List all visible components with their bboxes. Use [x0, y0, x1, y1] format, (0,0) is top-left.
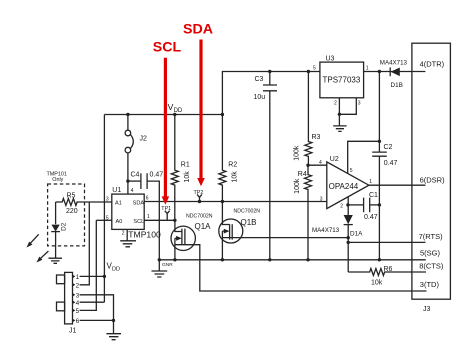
- svg-text:TP2: TP2: [194, 190, 204, 196]
- wire RTS: [348, 241, 425, 243]
- svg-text:7(RTS): 7(RTS): [419, 232, 444, 241]
- label VDD main: [168, 102, 183, 114]
- diode D1A: [312, 215, 363, 272]
- capacitor C2: [372, 144, 397, 167]
- svg-text:SCL: SCL: [133, 219, 144, 225]
- svg-text:3: 3: [358, 101, 361, 107]
- annotation SDA: [183, 22, 213, 187]
- resistor R5: [56, 192, 90, 215]
- svg-text:SCL: SCL: [153, 40, 182, 56]
- regulator U3: [313, 55, 369, 131]
- svg-text:R3: R3: [312, 134, 321, 141]
- svg-text:SDA: SDA: [183, 22, 213, 38]
- wire J1 pin6 GND: [80, 319, 114, 321]
- svg-text:10k: 10k: [184, 171, 191, 183]
- connector J3: [412, 43, 451, 313]
- svg-text:5: 5: [313, 66, 316, 72]
- op-amp U2: [308, 141, 379, 215]
- svg-text:R6: R6: [384, 266, 393, 273]
- svg-text:TP1: TP1: [161, 206, 171, 212]
- svg-text:TMP100: TMP100: [128, 229, 161, 239]
- resistor R3: [293, 72, 320, 166]
- svg-text:MA4X713: MA4X713: [380, 60, 408, 67]
- svg-text:J3: J3: [423, 306, 431, 313]
- svg-text:4(DTR): 4(DTR): [420, 60, 445, 69]
- svg-text:C3: C3: [255, 76, 264, 83]
- wire A1: [89, 201, 112, 203]
- wire U3 out to J3 DTR: [364, 71, 426, 73]
- svg-text:220: 220: [66, 208, 78, 215]
- LED arrow 1: [27, 234, 39, 247]
- svg-text:R5: R5: [67, 192, 76, 199]
- wire SCL net: [144, 219, 175, 221]
- wire VDD left drop to J1: [103, 115, 105, 303]
- wire DSR output: [369, 184, 426, 186]
- svg-text:U2: U2: [330, 156, 339, 163]
- diode D2: [51, 202, 67, 258]
- annotation SCL: [153, 40, 182, 205]
- svg-text:U1: U1: [112, 187, 121, 194]
- capacitor C3: [254, 72, 278, 260]
- svg-text:R2: R2: [228, 162, 237, 169]
- ground below J1: [106, 320, 121, 339]
- svg-text:3: 3: [76, 293, 80, 300]
- test point TP1: [161, 206, 171, 220]
- diode D1B: [380, 60, 408, 89]
- wire top 3.3V rail: [222, 72, 320, 115]
- svg-text:1: 1: [369, 179, 372, 185]
- svg-text:2: 2: [340, 204, 343, 210]
- resistor R1: [171, 115, 191, 221]
- svg-text:0.47: 0.47: [150, 172, 164, 179]
- svg-text:Q1A: Q1A: [195, 222, 212, 231]
- svg-text:3: 3: [320, 196, 323, 202]
- svg-text:10k: 10k: [371, 280, 383, 287]
- transistor Q1B: [219, 202, 348, 260]
- svg-text:D2: D2: [60, 222, 67, 231]
- svg-text:J1: J1: [69, 327, 77, 334]
- svg-text:A1: A1: [115, 200, 122, 206]
- svg-text:SDA: SDA: [133, 200, 145, 206]
- svg-text:R1: R1: [181, 162, 190, 169]
- svg-text:6: 6: [76, 318, 80, 325]
- svg-text:8(CTS): 8(CTS): [419, 262, 444, 271]
- svg-text:100k: 100k: [293, 145, 300, 161]
- resistor R2: [219, 115, 239, 202]
- svg-text:6: 6: [146, 195, 149, 201]
- svg-text:U3: U3: [326, 55, 335, 62]
- wire A0: [96, 219, 112, 221]
- test point TP2: [194, 190, 204, 202]
- connector J1: [57, 272, 80, 334]
- svg-text:R4: R4: [298, 171, 307, 178]
- wire A1 to J1 pin2: [80, 202, 90, 285]
- resistor R6: [348, 266, 426, 287]
- svg-text:C1: C1: [369, 192, 378, 199]
- svg-text:D1A: D1A: [350, 231, 363, 238]
- svg-text:C4: C4: [131, 172, 140, 179]
- svg-text:100k: 100k: [294, 178, 301, 194]
- svg-text:5: 5: [350, 168, 353, 174]
- svg-text:0.47: 0.47: [384, 160, 398, 167]
- svg-text:MA4X713: MA4X713: [312, 227, 340, 234]
- svg-text:1: 1: [147, 214, 150, 220]
- svg-text:10u: 10u: [254, 94, 266, 101]
- svg-text:0.47: 0.47: [364, 214, 378, 221]
- svg-text:2: 2: [76, 283, 80, 290]
- svg-text:Q1B: Q1B: [241, 218, 257, 227]
- wire GND rail: [159, 259, 425, 261]
- svg-text:4: 4: [76, 300, 80, 307]
- svg-text:A0: A0: [116, 219, 123, 225]
- svg-text:Only: Only: [52, 177, 63, 183]
- svg-text:1: 1: [366, 66, 369, 72]
- wire A0 to J1 pin5: [80, 220, 97, 310]
- ground below D2: [49, 258, 63, 263]
- label VDD at J1: [107, 262, 121, 273]
- svg-text:5(SG): 5(SG): [420, 248, 441, 257]
- svg-text:TPS77033: TPS77033: [323, 76, 361, 85]
- svg-text:4: 4: [319, 160, 322, 166]
- svg-text:2: 2: [334, 101, 337, 107]
- svg-text:D1B: D1B: [391, 82, 403, 89]
- svg-text:2: 2: [122, 230, 125, 236]
- ground GNR: [152, 260, 174, 277]
- svg-text:3(TD): 3(TD): [420, 280, 440, 289]
- svg-text:GNR: GNR: [162, 262, 173, 268]
- svg-text:NDC7002N: NDC7002N: [234, 209, 261, 215]
- svg-text:J2: J2: [140, 136, 148, 143]
- svg-text:DD: DD: [112, 266, 120, 272]
- svg-text:C2: C2: [384, 144, 393, 151]
- resistor R4: [294, 165, 311, 260]
- capacitor C4: [128, 172, 163, 260]
- wire C2 branch vertical: [378, 72, 380, 260]
- svg-text:10k: 10k: [232, 171, 239, 183]
- capacitor C1: [348, 192, 379, 221]
- svg-text:1: 1: [76, 274, 80, 281]
- LED arrow 2: [37, 251, 49, 262]
- wire J1 pin4 VDD: [80, 301, 105, 303]
- transistor Q1A: [171, 214, 427, 292]
- svg-text:6(DSR): 6(DSR): [420, 175, 446, 184]
- svg-text:OPA244: OPA244: [329, 182, 359, 191]
- svg-text:NDC7002N: NDC7002N: [186, 214, 213, 220]
- wire VDD rail: [104, 114, 222, 116]
- dashed box TMP101 only: [47, 171, 85, 246]
- IC U1 TMP100: [106, 187, 161, 247]
- wire J1 pin1 VDD: [80, 275, 105, 277]
- svg-text:5: 5: [76, 308, 80, 315]
- svg-text:4: 4: [131, 188, 134, 194]
- wire SDA net: [144, 201, 327, 203]
- jumper J2: [125, 115, 147, 195]
- wire J1 pin3: [80, 295, 114, 321]
